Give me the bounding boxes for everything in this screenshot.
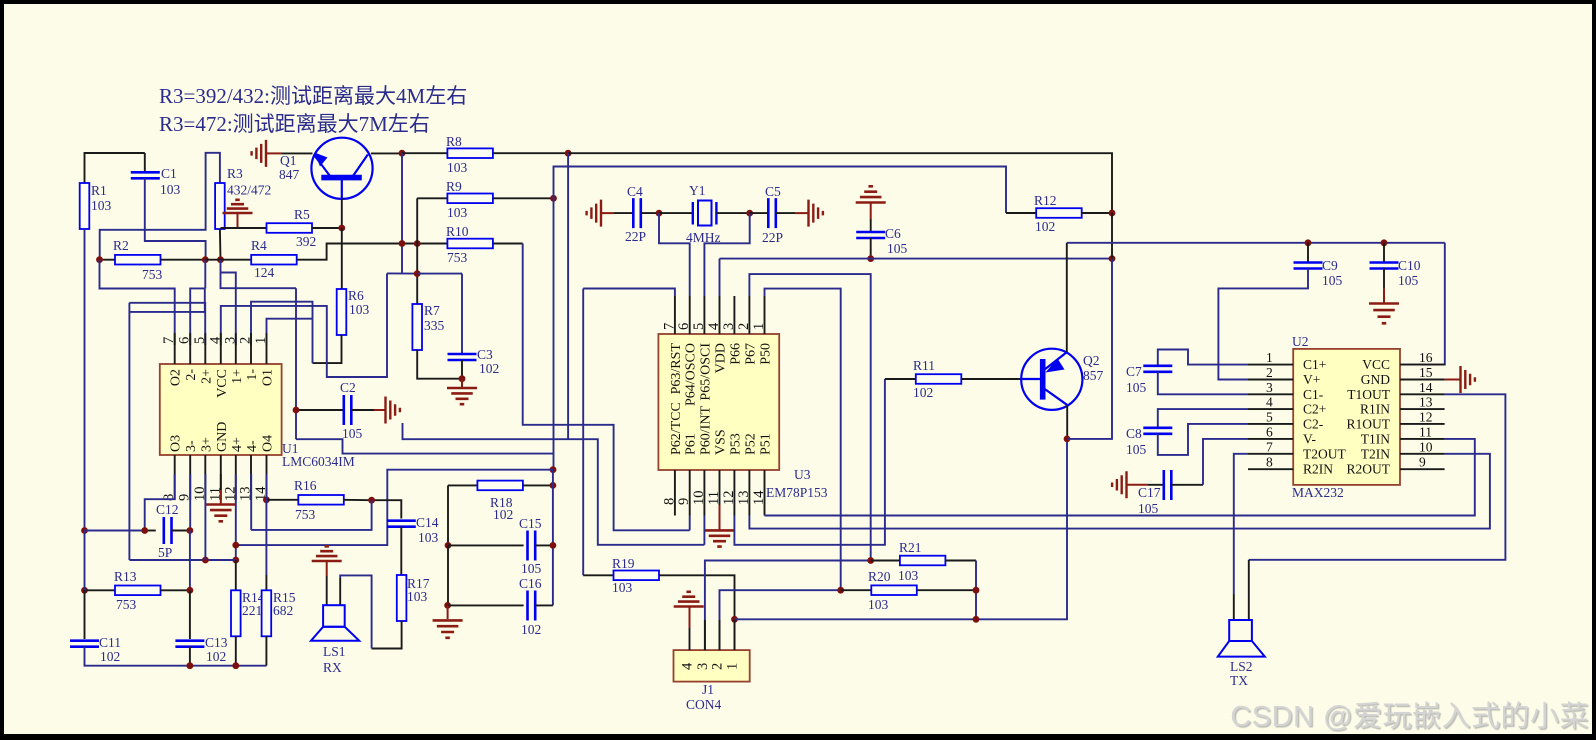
svg-text:V+: V+ [1303,372,1320,387]
wire R16 left [266,499,298,501]
junction C2 node [293,407,300,414]
junction R13 left [81,587,88,594]
junction C15 left [445,542,452,549]
wire U1 top pin stub [174,333,176,364]
wire U3 bottom pin stub [689,470,691,516]
svg-text:LMC6034IM: LMC6034IM [282,454,355,469]
wire to U2 pin6 [1203,439,1248,485]
junction U1 pin10 bias [202,557,209,564]
wire U3 top pin stub [748,296,750,334]
svg-text:102: 102 [100,649,120,664]
wire to C13 [189,590,191,639]
wire C7 bottom to U2 pin3 [1158,372,1248,395]
wire J1 pin4 stub [689,628,691,650]
wire LS1 ground stem [326,561,328,576]
speaker LS2 [1218,620,1265,657]
wire C4 right [641,212,659,214]
wire jog to U1 pin6 [190,288,205,345]
wire U1 bottom pin stub [250,455,252,500]
wire LS1 right to R17 node [340,575,371,648]
wire C17 right lead [1171,484,1203,486]
wire C6 top [870,219,872,232]
svg-text:R11: R11 [913,358,935,373]
wire R4 right up to R10 line [297,244,448,260]
resistor R6 [337,289,347,335]
svg-text:335: 335 [424,318,445,333]
wire ground stem [266,152,282,154]
svg-text:P62/TCC: P62/TCC [669,402,684,455]
wire R5 right to Q1 base [312,227,342,229]
wire R7 node to C3 [417,273,462,275]
wire to R7 top [387,272,417,274]
transistor Q1 emitter line [314,155,330,177]
svg-text:124: 124 [254,265,275,280]
wire J1 pin4 ground stem [689,607,691,628]
wire U1 bottom pin stub [189,455,191,500]
ground right of C5 [809,200,823,227]
wire collector node down to R7 line [401,153,403,273]
junction R8 node [565,150,572,157]
transistor Q1 body [311,138,372,199]
svg-text:C11: C11 [99,635,121,650]
wire U2 right pin stub [1400,379,1445,381]
junction bottom rail b [232,662,239,669]
svg-text:GND: GND [215,422,230,452]
wire R14 top lead [235,560,237,590]
svg-text:R5: R5 [294,207,310,222]
wire T1OUT to LS2 [1249,394,1506,560]
svg-text:U3: U3 [794,467,811,482]
junction R21 left [867,557,874,564]
wire ground stem C17 [1127,484,1149,486]
wire R6 bottom to feedback [313,335,342,363]
wire U1 pin13 down [250,474,252,530]
ground at C17 [1112,471,1126,498]
svg-text:C1: C1 [161,166,177,181]
svg-text:5: 5 [192,337,208,344]
svg-text:102: 102 [1035,219,1055,234]
wire to C5 [750,212,769,214]
svg-text:P63/RST: P63/RST [669,343,684,395]
wire C10 bottom lead [1383,269,1385,289]
wire R18 right [523,484,553,486]
svg-text:Y1: Y1 [689,183,706,198]
svg-text:13: 13 [736,491,752,506]
wire R16 right [344,499,372,501]
svg-text:1-: 1- [245,369,260,381]
speaker LS1 [311,605,359,641]
svg-text:C10: C10 [1398,258,1421,273]
svg-text:105: 105 [1322,273,1343,288]
wire U1 pin14 down [265,474,267,500]
wire U3 top pin stub [689,296,691,334]
capacitor C11 [70,641,99,647]
svg-text:R9: R9 [446,179,462,194]
ground at U1 GND [206,505,236,522]
svg-text:C2: C2 [340,380,356,395]
svg-text:C3: C3 [477,347,493,362]
wire U2 right pin stub [1400,423,1445,425]
svg-text:4: 4 [207,336,223,344]
svg-text:P61: P61 [684,433,699,455]
capacitor C10 [1370,263,1399,269]
wire R9 left down to R7 [416,198,418,304]
junction Q2 emitter [1064,436,1071,443]
wire R2 left [100,259,116,261]
svg-text:C5: C5 [765,184,781,199]
svg-text:847: 847 [279,167,300,182]
wire J1 pin3 stub [704,620,706,650]
svg-text:392: 392 [296,234,316,249]
svg-text:VSS: VSS [714,429,729,455]
svg-text:O2: O2 [169,369,184,386]
wire U1 pin11 stub2 [220,474,222,490]
connector J1 body [674,650,750,682]
svg-text:R3=472:测试距离最大7M左右: R3=472:测试距离最大7M左右 [159,112,430,136]
svg-text:U2: U2 [1292,334,1309,349]
junction VDD Q2 net [1109,255,1116,262]
wire U3 bottom pin stub [674,470,676,516]
capacitor C15 [528,531,536,561]
resistor R7 [412,304,422,350]
wire bus to Q2 emitter [735,439,1068,619]
resistor R4 [251,255,297,265]
svg-text:2: 2 [238,337,254,344]
wire ground net to U3 pin10 [403,423,705,545]
wire R17 bottom [372,621,402,649]
junction C12 right [187,527,194,534]
wire C1 top lead [144,153,146,172]
junction bottom rail a [187,662,194,669]
wire Q2 emitter down [1066,405,1068,439]
svg-text:4: 4 [706,322,722,330]
op-amp U1 body [160,364,282,455]
wire C16 right [535,604,553,606]
junction C4 Y1 [656,210,663,217]
wire U1 top pin stub [204,333,206,364]
ic U2 body [1293,349,1400,485]
svg-text:LS1: LS1 [323,644,346,659]
wire C2 node to network [296,439,554,453]
capacitor C17 [1164,470,1172,500]
svg-text:VCC: VCC [215,369,230,398]
wire R12 right [1082,212,1112,214]
capacitor C16 [528,591,536,621]
svg-text:LS2: LS2 [1230,659,1253,674]
resistor R9 [447,194,493,204]
wire U3 top pin stub [719,296,721,334]
wire U1 top pin stub [189,333,191,364]
ground at U2 GND [1461,366,1475,393]
wire LS2 left lead [1233,594,1235,620]
svg-text:7: 7 [661,323,677,330]
wire P53 to R11 [734,379,885,545]
svg-text:R13: R13 [114,569,137,584]
wire R21 node down [975,561,977,620]
transistor Q2 emitter line [1044,389,1067,405]
capacitor C7 [1143,366,1172,372]
ground at C2 [386,397,400,424]
ground at C16 [433,620,463,637]
resistor R15 [262,590,272,636]
svg-text:11: 11 [706,491,722,505]
svg-text:C8: C8 [1126,426,1142,441]
junction R20 right [973,587,980,594]
svg-text:VCC: VCC [1362,357,1390,372]
wire U2 right pin stub [1400,393,1445,395]
svg-text:753: 753 [116,597,137,612]
resistor R16 [298,495,344,505]
wire R21 right [945,560,976,562]
resistor R2 [115,255,161,265]
wire left chain [447,485,449,545]
wire bias net row [129,559,235,561]
svg-text:3: 3 [695,663,711,670]
wire R10 to U3 pin9 [523,244,690,531]
svg-text:R4: R4 [251,238,267,253]
wire U2 left pin stub [1248,393,1293,395]
wire RST to R19 net [583,289,675,297]
svg-text:C1-: C1- [1303,387,1324,402]
svg-text:Q2: Q2 [1083,353,1100,368]
transistor Q2 collector arrow [1046,359,1065,373]
wire R8 right [493,152,568,154]
junction R16 left [263,496,270,503]
svg-text:3+: 3+ [199,437,214,452]
wire U3 top pin stub [703,296,705,334]
wire feedback down to R6 [312,319,314,363]
junction C15 right [550,542,557,549]
svg-text:5: 5 [691,323,707,330]
wire U3 top pin stub [764,296,766,334]
svg-text:C1+: C1+ [1303,357,1326,372]
svg-text:V-: V- [1303,431,1317,446]
wire rail down to VDD node [1111,213,1113,259]
transistor Q1 base bar [321,175,362,181]
capacitor C13 [175,641,204,647]
svg-text:R1IN: R1IN [1360,402,1390,417]
svg-text:R1: R1 [91,183,107,198]
wire U1 pin4 VCC to R7 net [221,273,387,377]
wire Q1 base inside [341,180,343,199]
svg-text:10: 10 [691,491,707,506]
wire ground stem C4 [601,212,614,214]
wire C14 to R17 [400,527,402,575]
wire U3 bottom pin stub [719,470,721,516]
wire osc to U3 pin5 [704,213,749,296]
wire U1 top pin stub [220,333,222,364]
wire U2 right pin stub [1400,408,1445,410]
wire U2 left pin stub [1248,438,1293,440]
wire U1 bottom pin stub [235,455,237,500]
capacitor C4 [633,198,641,228]
wire to R4 [221,259,252,261]
wire R20 right [917,589,976,591]
wire U1 pin2 to feedback node [251,302,313,345]
wire to Q1 emitter [282,152,313,154]
wire C3 top lead [461,274,463,354]
ground left of C4 [587,200,601,227]
svg-text:12: 12 [721,491,737,506]
svg-text:EM78P153: EM78P153 [766,485,828,500]
wire C3 bottom [461,360,463,379]
junction R10 line a [399,240,406,247]
junction R2 left [96,256,103,263]
junction R2 right [202,256,209,263]
capacitor C1 [131,172,160,178]
svg-text:8: 8 [661,498,677,505]
svg-text:102: 102 [479,361,499,376]
wire node down to R6 [341,228,343,289]
wire U1 bottom pin stub [174,455,176,500]
wire pin10 down [703,516,705,545]
wire ground stem C6 [870,203,872,219]
svg-text:C2-: C2- [1303,416,1324,431]
junction R18 right [550,482,557,489]
junction collector node [399,150,406,157]
svg-text:R21: R21 [899,540,922,555]
wire ground stem C10 [1383,288,1385,302]
wire C2 left [296,409,344,411]
wire R9 left [417,197,447,199]
wire ground stem C3 [461,379,463,387]
svg-text:T2OUT: T2OUT [1303,446,1346,461]
svg-text:RX: RX [323,660,342,675]
svg-text:R2OUT: R2OUT [1347,462,1391,477]
ground near R3 [223,200,253,213]
wire U3 bottom pin stub [764,470,766,516]
wire Q2 base inside [1021,378,1040,380]
wire R11 left [885,378,916,380]
wire to C11 [84,590,86,639]
svg-text:C17: C17 [1138,485,1161,500]
capacitor C14 [387,521,416,527]
svg-text:R16: R16 [294,478,317,493]
svg-text:R20: R20 [868,569,891,584]
svg-text:103: 103 [349,302,370,317]
svg-text:C13: C13 [205,635,228,650]
wire down to R13 right [189,531,191,591]
svg-text:C9: C9 [1322,258,1338,273]
junction network top [550,466,557,473]
wire R1 bottom down [84,229,86,530]
junction R14 top [232,557,239,564]
svg-text:2-: 2- [184,369,199,381]
wire down to R15 [265,500,267,575]
wire U3 bottom pin stub [748,470,750,516]
capacitor C6 [856,232,885,238]
svg-text:105: 105 [1126,442,1147,457]
capacitor C8 [1143,428,1172,434]
svg-text:12: 12 [1419,409,1433,424]
resistor R18 [477,481,523,491]
wire left rail down [84,531,86,591]
capacitor C12 [164,517,172,544]
wire R9 node to R12 left [554,167,1007,214]
wire VDD rail [720,258,1113,260]
svg-text:103: 103 [407,589,428,604]
svg-text:7: 7 [1266,439,1273,454]
resistor R21 [900,556,946,566]
wire R7 bottom [417,350,462,379]
svg-text:C7: C7 [1126,364,1142,379]
wire U3 bottom pin stub [703,470,705,516]
svg-text:103: 103 [612,580,633,595]
resistor R1 [80,183,90,229]
svg-text:C12: C12 [156,502,179,517]
wire U2 pin4 to C8 top [1158,409,1248,428]
junction R9 node [550,195,557,202]
wire U1 top pin stub [235,333,237,364]
resistor R5 [267,223,313,233]
wire to C4 [614,212,633,214]
svg-text:4+: 4+ [230,437,245,452]
wire U1 bottom pin stub [266,455,268,500]
wire C5 right [776,212,795,214]
svg-text:103: 103 [418,530,439,545]
svg-text:5: 5 [1266,409,1273,424]
svg-text:P64/OSCO: P64/OSCO [684,343,699,406]
wire P52 to U2 pin10 [749,454,1490,529]
wire R9 node down to RC network [553,198,555,469]
svg-text:R2: R2 [113,238,129,253]
svg-text:22P: 22P [762,230,783,245]
svg-text:R2IN: R2IN [1303,462,1333,477]
svg-text:R8: R8 [446,134,462,149]
svg-text:C6: C6 [885,226,901,241]
resistor R17 [397,575,407,621]
wire right chain [552,470,554,606]
wire U1 bottom pin stub [204,455,206,500]
wire LS1 left lead [326,576,328,605]
wire U1 top pin stub [250,333,252,364]
wire R2 right node down [204,260,206,289]
svg-text:1: 1 [253,337,269,344]
wire emitter to VDD node [1067,259,1112,439]
wire jog down left [129,288,204,312]
svg-text:103: 103 [91,198,112,213]
svg-text:3: 3 [1266,380,1273,395]
wire U2 left pin stub [1248,423,1293,425]
svg-text:857: 857 [1083,368,1104,383]
wire C16 left [448,604,524,606]
svg-text:C2+: C2+ [1303,402,1326,417]
svg-text:Q1: Q1 [280,153,297,168]
svg-text:102: 102 [206,649,226,664]
wire R12 left [1006,212,1036,214]
svg-text:2: 2 [1266,365,1273,380]
svg-text:J1: J1 [702,682,714,697]
crystal Y1 [693,201,717,226]
wire Q1 collector to node [371,152,402,154]
wire R15 bottom [265,636,267,665]
svg-text:R10: R10 [446,224,469,239]
junction C12 rail [81,527,88,534]
junction C12 left [141,527,148,534]
wire C15 left [448,544,524,546]
junction R16 right [368,497,375,504]
svg-text:103: 103 [447,205,468,220]
wire U3 top pin stub [733,296,735,334]
svg-text:P52: P52 [743,433,758,455]
svg-text:4: 4 [680,662,696,670]
wire U2 right pin stub [1400,438,1445,440]
svg-text:C15: C15 [519,516,542,531]
svg-text:C14: C14 [416,515,439,530]
wire U1 pin12 down [235,474,237,560]
wire R4 left node down [221,260,297,289]
wire R21 left [871,560,900,562]
